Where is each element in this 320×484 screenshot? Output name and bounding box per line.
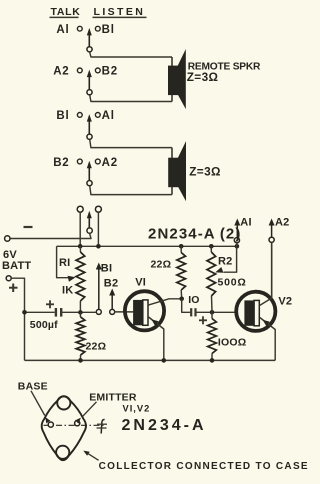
svg-text:500µf: 500µf	[30, 319, 58, 331]
svg-text:500Ω: 500Ω	[218, 276, 247, 288]
svg-text:RI: RI	[59, 257, 70, 269]
svg-text:COLLECTOR CONNECTED TO CASE: COLLECTOR CONNECTED TO CASE	[99, 461, 309, 472]
svg-text:Z=3Ω: Z=3Ω	[189, 165, 221, 179]
svg-text:TALK: TALK	[51, 6, 81, 18]
svg-text:Bl: Bl	[102, 24, 115, 36]
svg-text:2N234-A (2): 2N234-A (2)	[148, 226, 241, 243]
svg-text:AI: AI	[240, 217, 251, 229]
svg-text:BI: BI	[101, 262, 112, 274]
svg-text:BATT: BATT	[2, 260, 31, 272]
svg-text:IK: IK	[62, 285, 73, 297]
svg-text:6V: 6V	[3, 249, 17, 261]
svg-text:BASE: BASE	[18, 380, 48, 392]
svg-text:IO: IO	[188, 294, 200, 306]
svg-text:22Ω: 22Ω	[151, 259, 172, 271]
svg-text:Al: Al	[56, 24, 69, 36]
svg-text:A2: A2	[275, 217, 289, 229]
svg-text:V2: V2	[278, 295, 292, 307]
svg-text:2N234-A: 2N234-A	[122, 417, 207, 434]
svg-text:B2: B2	[53, 157, 69, 169]
svg-text:22Ω: 22Ω	[86, 340, 107, 352]
svg-text:A2: A2	[53, 66, 69, 78]
svg-text:R2: R2	[218, 256, 232, 268]
svg-text:VI: VI	[135, 276, 146, 288]
svg-text:Z=3Ω: Z=3Ω	[187, 70, 219, 84]
svg-text:IOOΩ: IOOΩ	[218, 337, 246, 349]
svg-text:B2: B2	[104, 277, 118, 289]
svg-text:A2: A2	[102, 157, 118, 169]
svg-text:Bl: Bl	[56, 110, 69, 122]
svg-text:LISTEN: LISTEN	[94, 6, 146, 18]
svg-text:VI,V2: VI,V2	[123, 404, 151, 414]
svg-text:Al: Al	[102, 110, 115, 122]
svg-text:EMITTER: EMITTER	[89, 392, 137, 404]
svg-text:B2: B2	[102, 66, 118, 78]
